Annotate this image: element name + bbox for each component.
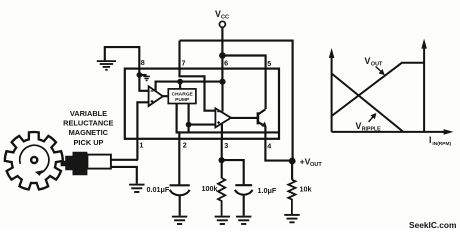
graph: right axis bbox=[423, 47, 425, 132]
graph label VRIPPLE bbox=[356, 121, 382, 132]
magnetic pickup bbox=[61, 152, 111, 175]
charge pump left bottom stub bbox=[176, 104, 178, 110]
label: VARIABLE RELUCTANCE MAGNETIC PICK UP bbox=[63, 109, 113, 147]
wire pickup bottom terminal to ground bbox=[111, 167, 137, 184]
capacitor C1 (under pin 2) bbox=[170, 139, 190, 216]
op-amp U1A bbox=[149, 86, 163, 106]
pointer arrow to Vout bbox=[376, 67, 382, 73]
wire pin3 lower part below op-amp2 bbox=[221, 124, 223, 140]
wire W1: op-amp top edge stub to pin6 dot bbox=[156, 82, 223, 91]
junction dot D3 (charge pump top) bbox=[177, 79, 183, 85]
junction dot D4 bbox=[186, 122, 192, 128]
wire junction to capacitor 1.0uF bbox=[222, 160, 244, 184]
charge pump right bottom stub bbox=[188, 104, 190, 133]
svg-text:V: V bbox=[356, 121, 362, 131]
pointer arrow to Vripple bbox=[369, 117, 374, 122]
transistor Q1 bbox=[258, 109, 267, 139]
svg-text:PUMP: PUMP bbox=[175, 97, 190, 103]
wire op-amp output to charge pump bbox=[163, 95, 169, 97]
graph: Vout curve bbox=[332, 63, 425, 116]
pin 1 stub (to op-amp + input) bbox=[137, 102, 148, 160]
wire op-amp2 output to transistor base bbox=[231, 117, 258, 119]
internal wire y132 to right edge bbox=[177, 131, 279, 133]
svg-text:CC: CC bbox=[221, 14, 229, 20]
svg-text:1.0μF: 1.0μF bbox=[258, 186, 277, 195]
svg-text:MAGNETIC: MAGNETIC bbox=[69, 128, 109, 137]
svg-text:RIPPLE: RIPPLE bbox=[362, 126, 381, 132]
svg-text:CHARGE: CHARGE bbox=[172, 91, 194, 97]
svg-text:IN(RPM): IN(RPM) bbox=[432, 141, 451, 147]
junction dot D1 (Vcc) bbox=[219, 52, 226, 59]
svg-text:6: 6 bbox=[224, 58, 228, 67]
ground (pickup) bbox=[129, 185, 144, 192]
svg-text:10k: 10k bbox=[300, 184, 312, 193]
svg-text:1: 1 bbox=[139, 141, 143, 150]
svg-text:100k: 100k bbox=[202, 184, 218, 193]
wire dot to internal mini ground bbox=[139, 74, 146, 76]
svg-text:8: 8 bbox=[141, 58, 145, 67]
gear rotation arrow bbox=[20, 145, 49, 173]
resistor 100k bbox=[218, 178, 225, 216]
ground (100k) bbox=[215, 217, 230, 224]
wire D1 down pin 6 to dot D2 bbox=[221, 56, 223, 82]
svg-text:0.01μF: 0.01μF bbox=[147, 185, 170, 194]
ground (C1) bbox=[172, 217, 187, 224]
wire pickup top terminal to pin 1 bbox=[111, 159, 138, 161]
label +VOUT bbox=[300, 157, 323, 169]
wire D1 to pin 5 / transistor collector bbox=[222, 56, 265, 110]
svg-text:OUT: OUT bbox=[310, 162, 322, 168]
gear hub dot bbox=[31, 157, 37, 163]
svg-text:3: 3 bbox=[224, 141, 228, 150]
pin 7 wire down and to op-amp2 minus input bbox=[180, 41, 216, 111]
svg-text:PICK UP: PICK UP bbox=[74, 138, 104, 147]
wire dot down to op-amp minus input bbox=[139, 75, 148, 91]
wire +VOUT down to 10k bbox=[291, 161, 293, 180]
wire pin 4 to +VOUT node bbox=[265, 139, 292, 161]
pin 8 path: top-left ground down to IC bbox=[105, 47, 140, 75]
wire D2 down to op-amp2 hidden pin3 line (upper part) bbox=[221, 82, 223, 112]
pin 2 stub bbox=[177, 104, 180, 140]
ground (C2) bbox=[236, 217, 251, 224]
svg-text:2: 2 bbox=[183, 141, 187, 150]
ground (10k) bbox=[284, 215, 299, 222]
pin number labels bbox=[139, 58, 271, 150]
svg-text:V: V bbox=[365, 56, 371, 66]
graph: x axis bbox=[332, 131, 446, 133]
graph label VOUT bbox=[365, 56, 383, 67]
junction dot D2 bbox=[219, 79, 225, 85]
ground (top-left, pin 8) bbox=[97, 61, 116, 70]
resistor 10k bbox=[288, 180, 295, 214]
gear wheel bbox=[5, 132, 63, 190]
IC box LM2917 bbox=[125, 69, 279, 139]
graph: left axis bbox=[329, 39, 454, 135]
capacitor C2 1.0uF bbox=[235, 185, 253, 216]
VCC terminal bbox=[215, 9, 229, 56]
wire pin3 down to junction and on to resistor bbox=[221, 139, 223, 178]
graph label Iin(rpm) bbox=[429, 135, 451, 147]
wire D4 to op-amp2 plus input bbox=[189, 124, 216, 126]
svg-text:SeekIC.com: SeekIC.com bbox=[409, 220, 456, 230]
node +VOUT dot bbox=[289, 158, 296, 165]
svg-text:+V: +V bbox=[300, 157, 311, 167]
op-amp U1B bbox=[215, 108, 231, 127]
svg-text:I: I bbox=[429, 135, 431, 145]
node: pin 3 junction dot bbox=[219, 157, 225, 163]
wire D3 down to charge pump box bbox=[179, 82, 181, 89]
graph: Vripple curve bbox=[332, 74, 403, 132]
svg-text:OUT: OUT bbox=[371, 61, 383, 67]
junction dot at pin 8 bbox=[137, 72, 143, 78]
top bus wire pin7 elbow bbox=[180, 41, 293, 161]
svg-text:RELUCTANCE: RELUCTANCE bbox=[63, 119, 113, 128]
svg-text:5: 5 bbox=[267, 59, 271, 68]
svg-text:VARIABLE: VARIABLE bbox=[70, 109, 107, 118]
svg-text:4: 4 bbox=[267, 141, 271, 150]
ground (internal mini) bbox=[143, 76, 150, 80]
charge pump box bbox=[168, 89, 196, 104]
svg-text:7: 7 bbox=[182, 58, 186, 67]
